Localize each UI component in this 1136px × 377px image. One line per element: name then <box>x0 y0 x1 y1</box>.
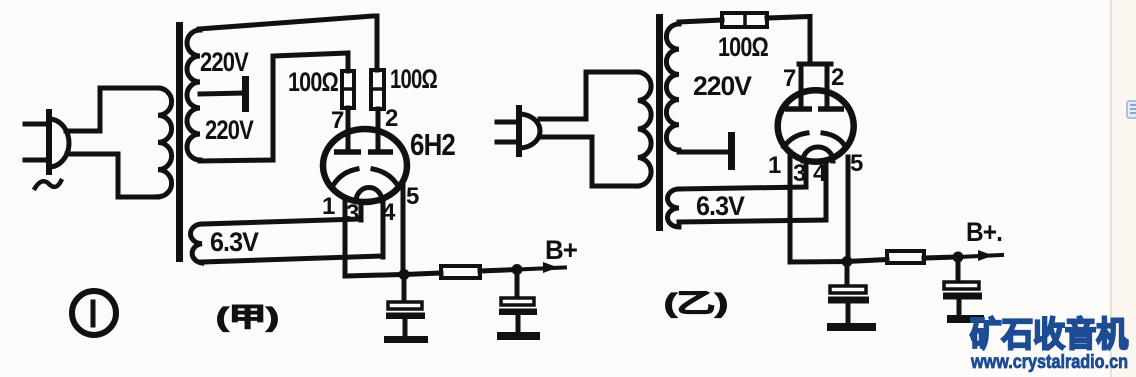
heater V2 <box>803 147 833 161</box>
secondary 220V winding S1 (5 bumps) <box>187 30 200 160</box>
svg-text:2: 2 <box>385 105 398 132</box>
capacitor C2 <box>515 270 520 298</box>
capacitor C4 <box>956 257 961 281</box>
heater V1 <box>356 188 382 202</box>
svg-text:B+: B+ <box>545 235 577 265</box>
center tap wire S3 <box>679 150 729 155</box>
wire plug-top to primary T1 <box>66 88 158 131</box>
svg-text:3: 3 <box>793 160 806 187</box>
svg-text:(甲): (甲) <box>216 302 279 332</box>
center tap bar S3 <box>728 132 735 170</box>
plug P1 prong lower <box>25 158 49 163</box>
svg-text:220V: 220V <box>200 47 249 77</box>
plate left V2 <box>785 106 812 112</box>
core T1 <box>176 22 183 262</box>
bus2 wire to R5 <box>847 260 887 262</box>
plug P2 prong lower <box>497 140 519 145</box>
svg-text:7: 7 <box>331 107 344 134</box>
lead pin2 V2 <box>825 64 830 107</box>
center tap bar <box>242 76 249 112</box>
bus wire R3 to junction <box>480 270 517 272</box>
wire primary bottom to plug <box>67 154 158 197</box>
resistor R5 <box>887 251 924 263</box>
cathode V2 left <box>784 133 807 147</box>
arrow B+ <box>543 262 558 273</box>
wire primary bottom to plug <box>542 137 638 186</box>
wire R4 to plates <box>767 17 810 63</box>
junction bus2-C3 <box>842 256 853 267</box>
svg-text:6.3V: 6.3V <box>696 191 745 221</box>
svg-text:1: 1 <box>768 152 781 179</box>
bus2 wire R5 to junction <box>924 257 958 258</box>
wire pin4 2 <box>824 160 829 220</box>
lead R1 to plate <box>346 108 351 150</box>
lead R2 to plate <box>376 109 381 150</box>
heater winding S2 (2 bumps) <box>190 224 202 263</box>
plate left V1 <box>334 149 361 155</box>
junction bus-C1 <box>399 269 410 280</box>
plug P2 body <box>519 114 540 148</box>
svg-text:(乙): (乙) <box>664 288 728 318</box>
svg-text:220V: 220V <box>205 115 254 145</box>
wire S4 top to pin3 <box>679 187 806 189</box>
junction bus-C2 <box>512 264 523 275</box>
heater winding S4 (2 bumps) <box>668 189 680 227</box>
arrow B+ 2 <box>978 250 993 261</box>
svg-text:100Ω: 100Ω <box>390 64 437 94</box>
resistor R3 <box>441 266 480 278</box>
svg-text:6H2: 6H2 <box>410 127 455 162</box>
primary winding T1 (4 bumps) <box>158 88 172 197</box>
svg-text:4: 4 <box>813 160 827 187</box>
tube V2 envelope <box>778 90 854 161</box>
attachment icon <box>1127 101 1136 118</box>
secondary 220V winding S3 (5 bumps) <box>666 24 679 150</box>
plug P2 flat bar <box>516 108 522 154</box>
plug P1 prong upper <box>25 122 49 127</box>
lead pin7 V2 <box>799 64 804 107</box>
svg-text:1: 1 <box>322 193 335 220</box>
svg-text:5: 5 <box>850 150 863 177</box>
wire S2 bottom to pin4 <box>202 256 383 262</box>
AC tilde <box>35 181 61 188</box>
right margin line <box>1110 0 1112 377</box>
svg-text:220V: 220V <box>693 71 752 101</box>
core T2 <box>656 14 663 231</box>
wire S4 bottom to pin4 <box>679 220 826 222</box>
resistor R4 100ohm <box>722 13 767 27</box>
svg-text:5: 5 <box>406 183 419 210</box>
wire pin5 to bus 2 <box>846 157 851 262</box>
wire S2 top to pin3 <box>202 219 361 224</box>
plate tie bar V2 <box>799 62 831 67</box>
wire pin1 to bus <box>345 199 404 276</box>
svg-text:B+.: B+. <box>966 217 1002 247</box>
plug P2 prong upper <box>497 120 519 125</box>
wire pin3 2 <box>804 161 809 186</box>
capacitor C1 <box>402 275 407 302</box>
junction bus2-C4 <box>953 252 964 263</box>
svg-text:6.3V: 6.3V <box>210 227 259 257</box>
plug P1 body <box>49 119 69 167</box>
wire pin1 to bus 2 <box>790 152 847 262</box>
resistor R1 100ohm <box>342 71 354 108</box>
wire to B+ <box>517 268 565 270</box>
wire plug-top to primary T2 <box>540 72 638 119</box>
wire pin3 <box>359 203 364 220</box>
svg-text:4: 4 <box>382 199 396 226</box>
svg-text:100Ω: 100Ω <box>288 67 338 97</box>
capacitor C3 <box>845 262 850 286</box>
plug P1 flat bar <box>46 112 52 172</box>
svg-text:3: 3 <box>346 200 359 227</box>
cathode V1 right <box>373 169 396 183</box>
svg-text:7: 7 <box>783 65 796 92</box>
tube V1 envelope <box>323 129 407 202</box>
svg-text:2: 2 <box>831 64 844 91</box>
center tap wire <box>200 93 243 94</box>
cathode V2 right <box>823 133 845 146</box>
wire pin4 <box>381 202 386 257</box>
wire S1 top to R2 <box>199 16 377 70</box>
resistor R2 100ohm <box>371 70 384 109</box>
bus wire to R3 <box>404 273 441 275</box>
wire S1 bottom to R1 <box>200 53 348 161</box>
svg-text:矿石收音机: 矿石收音机 <box>970 316 1128 354</box>
wire pin5 to bus <box>401 182 406 274</box>
figure number circle 1 <box>72 291 116 335</box>
svg-text:www.crystalradio.cn: www.crystalradio.cn <box>970 352 1128 373</box>
cathode V1 left <box>334 169 357 184</box>
primary winding T2 (4 bumps) <box>638 72 651 186</box>
plate right V2 <box>818 106 844 112</box>
plate right V1 <box>368 149 393 155</box>
wire to B+ 2 <box>958 255 1002 257</box>
wire S3 top to R4 <box>679 20 722 22</box>
svg-text:100Ω: 100Ω <box>718 32 768 62</box>
